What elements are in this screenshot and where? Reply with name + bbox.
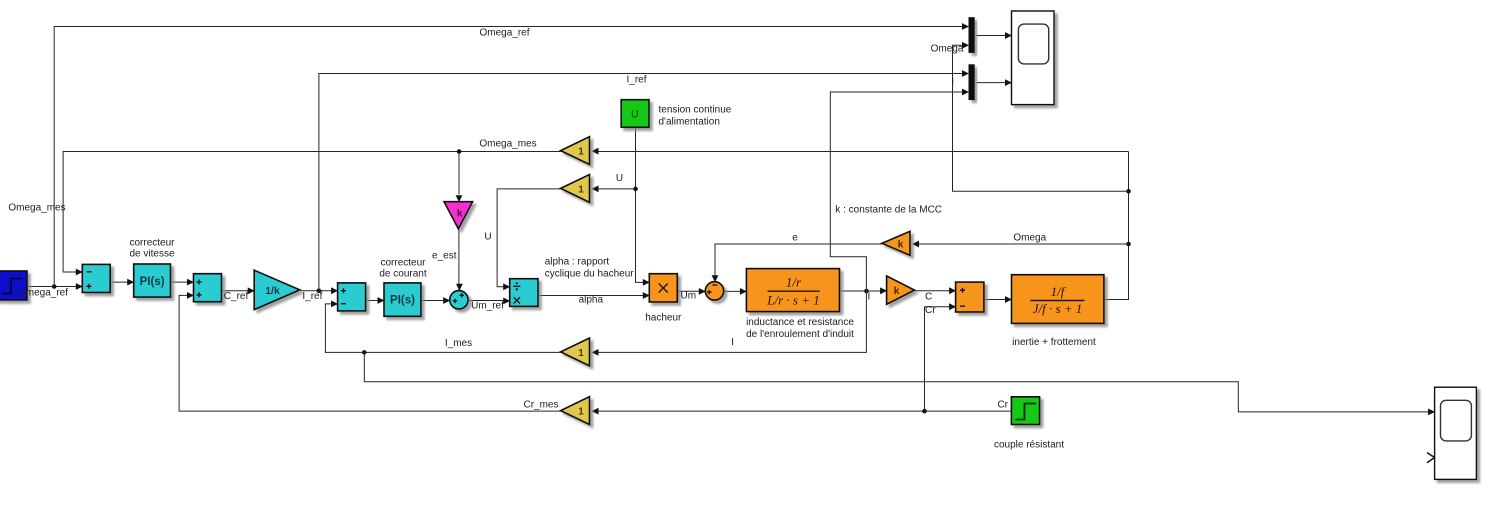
svg-text:1: 1 bbox=[578, 147, 584, 158]
svg-text:Um: Um bbox=[681, 291, 697, 302]
round sum rsum1 Um_ref bbox=[450, 291, 468, 309]
wire C_ref sum2 to gain 1/k bbox=[222, 287, 255, 294]
wire alpha divide to hacheur bbox=[539, 292, 650, 299]
step source Omega_ref bbox=[0, 271, 27, 300]
scope2 bbox=[1435, 387, 1477, 479]
transfer fcn 1/r inductance bbox=[746, 269, 839, 312]
svg-text:Omega: Omega bbox=[1013, 233, 1046, 244]
svg-text:C_ref: C_ref bbox=[224, 291, 249, 302]
svg-text:Um_ref: Um_ref bbox=[471, 301, 504, 312]
wire Omega_mes feedback to sum1 minus bbox=[63, 152, 561, 276]
wire I_ref to mux2 (top) bbox=[319, 70, 969, 291]
wire Omega to gain k feedback bbox=[912, 241, 1129, 248]
wire sum3 to PI2 bbox=[366, 297, 384, 304]
wire U gain output to divide upper input bbox=[497, 189, 561, 290]
wire sum1 to PI1 bbox=[111, 279, 135, 286]
svg-text:couple résistant: couple résistant bbox=[994, 440, 1064, 451]
svg-text:I_ref: I_ref bbox=[302, 291, 322, 302]
svg-text:I_mes: I_mes bbox=[445, 338, 472, 349]
svg-text:e_est: e_est bbox=[432, 251, 457, 262]
gain k feedback (orange, left) bbox=[882, 231, 910, 255]
sum block sum4 (orange) bbox=[956, 282, 984, 312]
svg-text:correcteur: correcteur bbox=[129, 238, 175, 249]
scope2 unconnected input port bbox=[1427, 453, 1435, 463]
svg-text:Omega_ref: Omega_ref bbox=[18, 288, 68, 299]
svg-text:inertie + frottement: inertie + frottement bbox=[1012, 337, 1096, 348]
svg-text:I_ref: I_ref bbox=[626, 75, 646, 86]
svg-text:k: k bbox=[457, 209, 463, 220]
svg-text:1: 1 bbox=[578, 348, 584, 359]
wire I up to mux2 lower input bbox=[830, 89, 969, 291]
PI controller U1 correcteur de vitesse bbox=[134, 264, 171, 297]
svg-text:Cr: Cr bbox=[925, 305, 936, 316]
svg-text:Cr: Cr bbox=[997, 400, 1008, 411]
wire e gain k to round sum2 top bbox=[712, 244, 883, 282]
node Omega junction upper bbox=[1126, 189, 1131, 194]
gain k (orange, forward) bbox=[887, 276, 915, 304]
wire I_ref gain 1/k to sum3 bbox=[300, 287, 338, 294]
svg-text:C: C bbox=[925, 292, 932, 303]
svg-text:alpha: alpha bbox=[579, 295, 604, 306]
gain 1/k bbox=[254, 270, 300, 309]
gain 1 Cr_mes (yellow) bbox=[561, 397, 590, 425]
wire Omega_ref to mux1 (top) bbox=[54, 23, 969, 286]
svg-text:Cr_mes: Cr_mes bbox=[523, 400, 558, 411]
svg-text:1: 1 bbox=[578, 407, 584, 418]
svg-text:1/k: 1/k bbox=[265, 285, 280, 297]
mux2 bbox=[969, 64, 975, 100]
svg-text:U: U bbox=[631, 109, 639, 121]
wire I transfer fcn to gain k bbox=[840, 287, 887, 294]
node Cr junction bbox=[922, 409, 927, 414]
svg-text:Omega_mes: Omega_mes bbox=[479, 139, 536, 150]
svg-text:1/f: 1/f bbox=[1051, 284, 1067, 299]
scope1 bbox=[1012, 11, 1055, 105]
svg-text:PI(s): PI(s) bbox=[390, 295, 415, 307]
svg-text:correcteur: correcteur bbox=[380, 258, 426, 269]
divide block bbox=[510, 279, 538, 307]
round sum rsum2 (orange) bbox=[705, 282, 723, 300]
svg-text:d'alimentation: d'alimentation bbox=[659, 117, 720, 128]
wire round sum2 to transfer fcn 1/r bbox=[724, 288, 747, 295]
wire Um hacheur to round sum2 bbox=[678, 288, 706, 295]
wire I_mes to sum3 minus bbox=[325, 301, 561, 353]
wire mux2 to scope1 bbox=[975, 79, 1012, 86]
svg-text:e: e bbox=[792, 233, 798, 244]
svg-text:Omega_ref: Omega_ref bbox=[479, 28, 529, 39]
svg-text:de vitesse: de vitesse bbox=[129, 249, 174, 260]
svg-text:de courant: de courant bbox=[379, 269, 426, 280]
wire Omega_ref source to sum1 bbox=[28, 283, 83, 290]
node Omega_mes junction bbox=[457, 149, 462, 154]
svg-text:I: I bbox=[731, 337, 734, 348]
svg-text:1/r: 1/r bbox=[786, 275, 802, 290]
svg-text:cyclique du hacheur: cyclique du hacheur bbox=[545, 269, 635, 280]
svg-text:alpha : rapport: alpha : rapport bbox=[545, 257, 610, 268]
node I_mes junction bbox=[362, 350, 367, 355]
wire C gain k to sum4 bbox=[915, 287, 956, 294]
wire U junction to gain U bbox=[592, 186, 636, 193]
svg-text:Omega_mes: Omega_mes bbox=[8, 203, 65, 214]
wire Omega inertia output up bbox=[1104, 152, 1128, 300]
mux1 bbox=[969, 17, 975, 53]
wire Um_ref round sum1 to divide bbox=[469, 298, 511, 305]
multiply block hacheur bbox=[649, 274, 677, 302]
svg-text:L/r · s + 1: L/r · s + 1 bbox=[766, 292, 819, 307]
wire Omega to mux1 lower input bbox=[953, 42, 1129, 191]
svg-text:U: U bbox=[616, 173, 623, 184]
svg-text:I: I bbox=[951, 77, 954, 88]
svg-text:inductance et resistance: inductance et resistance bbox=[746, 317, 854, 328]
node Omega_ref junction bbox=[52, 284, 57, 289]
svg-text:hacheur: hacheur bbox=[645, 313, 682, 324]
svg-text:PI(s): PI(s) bbox=[140, 276, 165, 288]
wire Cr source to gain Cr_mes bbox=[592, 408, 1012, 415]
wire PI2 to round sum1 bbox=[421, 297, 450, 304]
gain k estimator (magenta) bbox=[444, 202, 473, 229]
svg-text:de l'enroulement d'induit: de l'enroulement d'induit bbox=[746, 329, 854, 340]
wire PI1 to sum2 bbox=[171, 279, 194, 286]
wire sum4 to transfer fcn inertia bbox=[984, 296, 1012, 303]
wire U source down to hacheur upper input bbox=[636, 128, 650, 286]
step source Cr couple resistant (green) bbox=[1011, 397, 1039, 425]
svg-text:k: k bbox=[894, 286, 900, 297]
wire Cr up to sum4 minus bbox=[925, 303, 957, 411]
wire e_est to round sum1 top bbox=[456, 229, 463, 290]
svg-text:k: k bbox=[898, 239, 904, 250]
svg-text:U: U bbox=[484, 232, 491, 243]
sum block sum3 bbox=[338, 283, 366, 311]
gain 1 U (yellow) bbox=[561, 175, 590, 203]
svg-text:I: I bbox=[868, 292, 871, 303]
svg-text:J/f · s + 1: J/f · s + 1 bbox=[1033, 301, 1083, 316]
PI controller U2 correcteur de courant bbox=[384, 283, 421, 316]
wire mux1 to scope1 bbox=[975, 32, 1012, 39]
sum block sum2 bbox=[194, 274, 222, 302]
wire Omega_mes top to gain 1 bbox=[592, 148, 1129, 155]
node Omega junction lower bbox=[1126, 242, 1131, 247]
svg-text:Omega: Omega bbox=[931, 44, 964, 55]
node I_ref junction bbox=[317, 289, 322, 294]
gain 1 Omega_mes (yellow) bbox=[561, 137, 590, 165]
sum block sum1 bbox=[82, 264, 110, 292]
svg-text:tension continue: tension continue bbox=[659, 105, 732, 116]
wire Omega_mes junction down to gain k estimator bbox=[456, 152, 463, 203]
node I junction bbox=[864, 289, 869, 294]
node U junction bbox=[633, 187, 638, 192]
svg-text:k : constante de la MCC: k : constante de la MCC bbox=[835, 205, 942, 216]
svg-text:1: 1 bbox=[578, 184, 584, 195]
wire I down to gain I_mes bbox=[592, 291, 867, 356]
wire Cr_mes to sum2 lower input bbox=[179, 292, 561, 411]
constant source U (green) bbox=[621, 100, 649, 128]
gain 1 I_mes (yellow) bbox=[561, 338, 590, 366]
transfer fcn 1/f inertie bbox=[1012, 275, 1104, 324]
wire I_mes to scope2 bbox=[364, 352, 1435, 415]
